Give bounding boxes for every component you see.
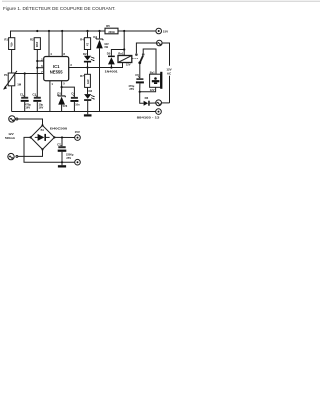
svg-text:47k: 47k <box>9 42 13 47</box>
svg-text:15V: 15V <box>75 130 80 134</box>
node C1 tap <box>24 72 26 74</box>
relay contact switch <box>135 53 144 64</box>
bridge rectifier B1 B40C500 <box>30 124 68 150</box>
svg-text:Re1: Re1 <box>118 51 124 55</box>
svg-text:C7: C7 <box>57 143 61 147</box>
svg-text:Figure 1. DÉTECTEUR DE COUPURE: Figure 1. DÉTECTEUR DE COUPURE DE COURAN… <box>3 5 116 12</box>
LED D2 <box>83 50 95 68</box>
wire top supply rail <box>11 31 156 38</box>
svg-text:16V: 16V <box>25 106 30 110</box>
svg-text:25V: 25V <box>129 87 134 91</box>
svg-text:C1: C1 <box>20 93 24 97</box>
svg-text:8: 8 <box>63 52 65 56</box>
wire contact NO to buzzer <box>143 49 156 74</box>
pin 8 <box>62 31 65 57</box>
pin 3 <box>70 63 72 67</box>
terminal ground right <box>156 109 162 115</box>
relay coil Re1 <box>118 50 132 67</box>
resistor R4 <box>80 31 90 50</box>
resistor R1 <box>4 38 14 50</box>
svg-text:R2: R2 <box>30 38 34 42</box>
wire lamp2 to 12V AC line <box>162 102 170 104</box>
wire P1 wiper to IC pin 7 <box>15 73 44 75</box>
wire contact NC to lamp <box>136 43 156 53</box>
svg-text:12V: 12V <box>126 63 131 67</box>
wire pin 2 stub <box>37 60 43 62</box>
terminal AC input lower <box>8 153 18 159</box>
svg-text:270: 270 <box>86 79 90 84</box>
wire IC pin3 output <box>69 63 123 68</box>
lamp La2 <box>156 100 162 106</box>
pin 5 <box>62 81 66 87</box>
svg-text:R1: R1 <box>4 38 8 42</box>
terminal 15V supply output <box>75 130 81 141</box>
wire bridge minus to supply ground rail <box>24 137 75 162</box>
svg-text:1: 1 <box>51 82 53 86</box>
diode D5 1N4001 <box>105 52 119 74</box>
svg-text:B1: B1 <box>41 128 45 132</box>
node C7 tap <box>61 136 63 138</box>
zener diode D1 <box>57 87 67 111</box>
pin 6 <box>41 64 43 68</box>
label 12V 500mA <box>5 132 16 140</box>
wire pin5 to C4 <box>62 87 75 97</box>
resistor R7 <box>80 68 90 88</box>
resistor R2 <box>30 38 40 50</box>
svg-text:1N4001: 1N4001 <box>105 69 119 73</box>
ground <box>84 112 92 117</box>
figure caption <box>3 5 116 12</box>
svg-text:C2: C2 <box>32 93 36 97</box>
terminal supply ground output <box>75 159 81 165</box>
IC IC1 NE555 <box>44 57 69 81</box>
svg-text:3: 3 <box>70 63 72 67</box>
svg-text:884105 - 13: 884105 - 13 <box>137 115 160 119</box>
svg-text:1k: 1k <box>85 43 89 47</box>
node pin6 tie <box>36 67 38 69</box>
node rail junction dots <box>36 30 125 32</box>
wire C2 lower lead <box>36 102 38 112</box>
svg-text:R5: R5 <box>106 24 110 28</box>
svg-text:25V: 25V <box>66 156 71 160</box>
ground supply <box>58 162 66 167</box>
svg-text:Bz1: Bz1 <box>150 70 155 74</box>
svg-text:D6: D6 <box>145 96 149 100</box>
node D5 output junction <box>110 66 112 68</box>
svg-text:5V6: 5V6 <box>63 104 68 108</box>
node C6 bottom junction <box>139 91 141 93</box>
svg-text:220Ω: 220Ω <box>108 30 114 34</box>
pin 2 <box>41 57 43 61</box>
svg-text:5: 5 <box>63 82 65 86</box>
terminal AC input upper <box>9 116 18 122</box>
wire lamp to 12V AC line <box>162 43 169 66</box>
resistor R5 <box>105 24 118 34</box>
node IC output at D2 <box>86 66 88 68</box>
svg-text:D1: D1 <box>57 92 61 96</box>
svg-text:R4: R4 <box>80 38 84 42</box>
svg-text:D2: D2 <box>83 52 87 56</box>
top rule <box>2 0 320 2</box>
wire pin 6 stub <box>37 67 43 69</box>
svg-text:D5: D5 <box>107 52 111 56</box>
svg-text:C4: C4 <box>71 91 75 95</box>
svg-text:15V: 15V <box>163 29 168 33</box>
wire P1 to ground rail <box>11 86 13 112</box>
svg-text:500mA: 500mA <box>5 136 16 140</box>
svg-text:1M: 1M <box>17 82 22 86</box>
wire bridge plus output <box>54 136 74 138</box>
wire relay feed drop <box>111 31 124 56</box>
node pin2 tie <box>36 60 38 62</box>
svg-text:1W: 1W <box>104 45 108 49</box>
svg-text:NE555: NE555 <box>50 70 63 75</box>
diode D6 <box>144 96 156 106</box>
svg-text:2M2: 2M2 <box>35 42 39 48</box>
wire C1 upper lead <box>24 74 26 98</box>
capacitor C4 <box>70 91 80 106</box>
capacitor C6 <box>128 63 144 92</box>
wire C4 lower lead <box>73 102 75 112</box>
lamp La1 <box>157 40 163 46</box>
svg-text:P1: P1 <box>4 73 8 77</box>
svg-text:IC1: IC1 <box>53 64 60 69</box>
zener diode D4 <box>93 31 109 112</box>
svg-text:D4: D4 <box>93 35 97 39</box>
svg-text:C6: C6 <box>135 73 139 77</box>
buzzer Bz1 <box>150 70 163 91</box>
wire R2 down to pins 2-6 and C2 <box>36 50 38 98</box>
wire AC lower to bridge <box>18 149 43 156</box>
svg-text:12V: 12V <box>150 88 155 92</box>
wire buzzer bottom <box>140 87 156 92</box>
pin 4 <box>49 31 52 57</box>
wire AC upper to bridge <box>18 119 43 125</box>
capacitor C1 <box>20 93 32 110</box>
net 12V AC <box>165 66 174 103</box>
capacitor C2 <box>32 93 43 110</box>
svg-text:10n: 10n <box>75 102 80 106</box>
svg-text:B40C500: B40C500 <box>50 127 68 131</box>
node relay feed <box>123 48 125 50</box>
LED D3 <box>84 87 95 111</box>
wire to D6 <box>140 92 144 103</box>
svg-text:4: 4 <box>50 52 52 56</box>
potentiometer P1 <box>4 71 22 90</box>
wire ground rail <box>12 111 156 113</box>
wire C1 lower lead <box>24 102 26 112</box>
svg-text:D3: D3 <box>89 89 93 93</box>
wire R1 to P1 <box>11 50 13 74</box>
pin 1 <box>50 81 54 112</box>
node pin5 junction <box>61 86 63 88</box>
pin 7 <box>41 70 43 74</box>
terminal 15V top <box>156 28 168 34</box>
svg-text:16V: 16V <box>39 106 44 110</box>
capacitor C7 <box>57 138 74 163</box>
wire relay actuator link <box>132 57 138 59</box>
note figure number <box>137 115 160 119</box>
svg-text:R7: R7 <box>80 74 84 78</box>
node supply ground junction <box>61 161 63 163</box>
